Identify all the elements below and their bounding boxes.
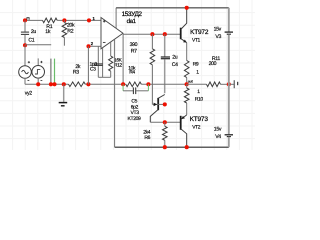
node R3 left / ground [62, 82, 66, 86]
wire op-amp output [123, 33, 181, 35]
node supply mid [227, 82, 231, 86]
capacitor C5 loop [123, 84, 148, 94]
svg-text:C4: C4 [172, 62, 178, 68]
node op-amp +input [87, 16, 96, 22]
source V2 square [32, 58, 45, 84]
node stub green bottom [52, 82, 56, 86]
svg-text:2u: 2u [31, 29, 37, 35]
label VT1 [192, 38, 201, 44]
svg-text:R12: R12 [114, 63, 122, 69]
resistor R2 [62, 20, 75, 45]
svg-text:KT209: KT209 [128, 116, 142, 122]
battery V3 [214, 8, 233, 85]
svg-text:R7: R7 [131, 48, 137, 54]
svg-text:vy2: vy2 [25, 90, 33, 96]
wire ground bus [25, 78, 187, 84]
svg-text:R6: R6 [144, 135, 150, 141]
svg-text:VT1: VT1 [192, 38, 201, 44]
wire V+ pin [115, 8, 117, 28]
svg-text:C1: C1 [28, 38, 34, 44]
wire stub green [54, 59, 56, 85]
label KT972 [190, 29, 209, 36]
resistor R3 [69, 64, 86, 87]
node R6 bottom [163, 145, 167, 149]
svg-text:15v: 15v [214, 26, 222, 32]
node V2 bottom [36, 82, 40, 86]
resistor R1 [43, 18, 58, 35]
node output R7 [150, 32, 154, 36]
svg-text:da1: da1 [127, 18, 137, 25]
wire feedback column [87, 46, 89, 84]
wire apex feedback drop [122, 34, 124, 84]
resistor R6 [143, 122, 167, 147]
node op-amp -input [86, 41, 93, 48]
svg-text:390: 390 [130, 42, 138, 48]
node VT3 base column [163, 102, 167, 106]
wire V- column [114, 39, 116, 147]
transistor VT2 [181, 115, 187, 147]
wire stub gray [50, 59, 52, 85]
label VT2 [192, 124, 201, 130]
battery V4 [214, 84, 233, 147]
wire inverting net stub [25, 44, 51, 46]
node VT2 base junction [163, 120, 167, 124]
svg-text:R4: R4 [129, 70, 135, 76]
svg-text:1k: 1k [45, 29, 51, 35]
wire top rail [116, 7, 229, 9]
label C5 [131, 99, 139, 111]
wire -input lead [89, 45, 102, 47]
node R4 left [121, 82, 125, 86]
label KT209 [128, 116, 142, 122]
port terminal [229, 80, 238, 88]
source V1 sine [19, 45, 32, 80]
resistor R9 [184, 43, 199, 85]
svg-text:15v: 15v [214, 126, 222, 132]
node feedback bus [86, 82, 90, 86]
transistor VT3 [150, 95, 165, 123]
svg-text:C3: C3 [90, 67, 96, 73]
node VT1 collector top [185, 6, 189, 10]
capacitor C3 [90, 46, 111, 77]
svg-text:V3: V3 [215, 34, 221, 40]
node output C4 [163, 32, 167, 36]
transistor VT1 [181, 8, 187, 43]
resistor R4 [126, 65, 142, 86]
capacitor C1 [21, 20, 37, 45]
resistor R10 [184, 84, 203, 115]
svg-text:KT972: KT972 [190, 29, 209, 36]
label KT973 [190, 116, 209, 123]
svg-text:V4: V4 [215, 134, 221, 140]
wire bottom rail [115, 146, 229, 148]
label 153UD2 [122, 11, 143, 25]
node output [185, 80, 194, 87]
svg-text:R10: R10 [195, 97, 204, 103]
svg-text:R3: R3 [73, 69, 79, 75]
ground [59, 84, 67, 106]
op-amp DA1 [101, 18, 123, 49]
node C1 bottom [23, 43, 27, 47]
node stub gray bottom [49, 82, 53, 86]
capacitor C4 [161, 34, 178, 93]
label VT3 [131, 110, 140, 116]
svg-text:R2: R2 [67, 28, 73, 34]
resistor R12 [109, 42, 123, 77]
node R1-R2 junction [62, 18, 66, 22]
svg-text:R9: R9 [193, 62, 199, 68]
node R4 right [146, 82, 150, 86]
svg-text:VT2: VT2 [192, 124, 201, 130]
svg-text:200: 200 [209, 61, 217, 67]
label V1V2 [25, 90, 33, 96]
wire VT2 base net [150, 121, 180, 123]
wire input net top [25, 19, 101, 21]
resistor R7 [130, 34, 155, 104]
node IN [23, 18, 29, 23]
resistor R11 [187, 56, 229, 87]
svg-text:2u: 2u [172, 54, 178, 60]
node VT2 collector bottom [185, 145, 189, 149]
svg-text:KT973: KT973 [190, 116, 209, 123]
